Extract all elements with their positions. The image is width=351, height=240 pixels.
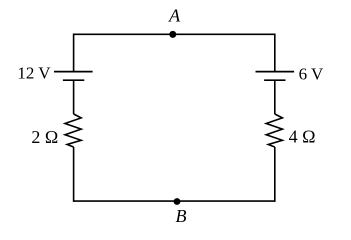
node B junction dot: [174, 198, 181, 205]
battery V2 (6 V), right branch: [256, 72, 295, 81]
svg-text:6 V: 6 V: [299, 65, 324, 84]
resistor R2 (4 Ω), right branch zigzag: [266, 114, 282, 147]
svg-text:12 V: 12 V: [17, 64, 51, 83]
svg-text:A: A: [168, 6, 181, 26]
wire: right branch, battery negative plate down to resistor R2: [274, 80, 276, 114]
wire: top conductor (top-left corner to top-right corner through node A): [74, 33, 275, 35]
svg-text:B: B: [176, 206, 187, 226]
wire: right branch, top-right corner down to battery positive plate: [274, 34, 276, 72]
svg-text:4 Ω: 4 Ω: [289, 127, 316, 147]
wire: right branch, resistor R2 down to bottom-right corner: [274, 147, 276, 202]
svg-text:2 Ω: 2 Ω: [31, 127, 58, 147]
wire: left branch, resistor R1 down to bottom-left corner: [73, 147, 75, 202]
wire: bottom conductor (bottom-left corner to bottom-right corner through node B): [74, 200, 275, 202]
resistor R1 (2 Ω), left branch zigzag: [65, 114, 81, 147]
wire: left branch, battery negative plate down to resistor R1: [73, 80, 75, 114]
wire: left branch, top-left corner down to battery positive plate: [73, 34, 75, 72]
node A junction dot: [169, 31, 176, 38]
battery V1 (12 V), left branch: [54, 72, 93, 81]
